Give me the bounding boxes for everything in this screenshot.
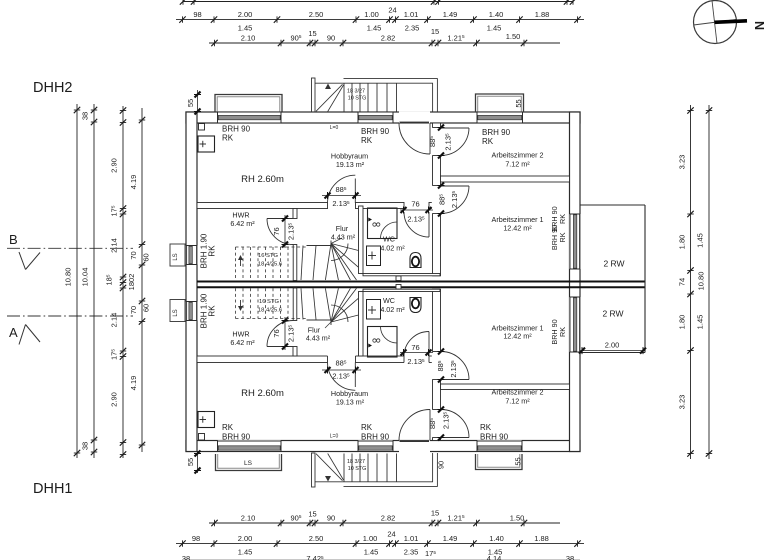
window left DHH2 BRH1.90 [186, 246, 197, 265]
svg-text:RK: RK [480, 423, 492, 432]
top dimension chain row1 [176, 6, 584, 23]
svg-text:16 STG: 16 STG [259, 299, 279, 305]
wall face lines across windows [218, 122, 282, 124]
window well bottom-1 LS [216, 454, 282, 471]
svg-text:1.50: 1.50 [506, 32, 521, 41]
room label WC DHH2 [380, 235, 405, 253]
window label BRH1.90 left DHH2 [200, 233, 217, 268]
interior wall WC west DHH1 [359, 292, 364, 357]
svg-text:18 3/27: 18 3/27 [347, 89, 365, 95]
svg-text:76: 76 [272, 329, 281, 337]
svg-text:1.40: 1.40 [489, 10, 504, 19]
dim 55 top-left [186, 90, 201, 115]
svg-text:76: 76 [272, 227, 281, 235]
interior wall WC south DHH2 [363, 274, 440, 276]
svg-text:12.42 m²: 12.42 m² [503, 332, 532, 341]
entrance door opening DHH1 [399, 440, 430, 452]
junction box WC south DHH2 [396, 276, 401, 281]
svg-text:RK: RK [208, 245, 217, 257]
svg-text:55: 55 [514, 99, 523, 107]
stair spine wall DHH1 [293, 288, 297, 321]
interior wall A1/A2 divider DHH1 [441, 384, 570, 390]
stair spine wall DHH2 [293, 245, 297, 281]
svg-text:RK: RK [558, 214, 567, 224]
svg-text:Arbeitszimmer 2: Arbeitszimmer 2 [492, 151, 544, 160]
svg-text:LS: LS [173, 309, 179, 316]
window right DHH1 BRH90 [569, 297, 580, 352]
svg-text:98: 98 [192, 534, 200, 543]
right dimension chain R1 [678, 105, 694, 459]
svg-text:24: 24 [387, 530, 395, 539]
svg-text:Arbeitszimmer 2: Arbeitszimmer 2 [492, 388, 544, 397]
door opening Hobbyraum DHH2 [328, 202, 356, 209]
svg-text:N: N [752, 21, 766, 30]
svg-text:2.14: 2.14 [110, 238, 119, 253]
door opening WC (76) DHH1 [404, 355, 429, 363]
svg-text:4.19: 4.19 [129, 376, 138, 391]
door swing Arbeitszimmer2 DHH2 + labels [428, 125, 469, 159]
svg-text:10.80: 10.80 [697, 272, 706, 291]
svg-text:4.02 m²: 4.02 m² [380, 244, 405, 253]
shaft box WC DHH1 [367, 300, 381, 320]
section line A [7, 316, 133, 345]
svg-text:1.01: 1.01 [404, 534, 419, 543]
svg-text:RK: RK [222, 134, 234, 143]
svg-text:1.88: 1.88 [535, 10, 550, 19]
svg-text:RK: RK [208, 305, 217, 317]
bottom dimension chain rowD (clipped) [182, 554, 580, 560]
window right DHH2 BRH90 [569, 214, 580, 269]
svg-text:1.50: 1.50 [510, 513, 525, 522]
window well top-3 [476, 94, 524, 112]
svg-text:38: 38 [566, 554, 574, 560]
svg-text:6.42 m²: 6.42 m² [230, 219, 255, 228]
svg-text:19.13 m²: 19.13 m² [336, 160, 365, 169]
interior wall vertical divider DHH2 [433, 123, 441, 276]
left dimension chain L1 (10.80) [64, 104, 81, 458]
svg-text:BRH 90: BRH 90 [361, 127, 390, 136]
svg-text:90: 90 [437, 461, 446, 469]
party wall line DHH1 [197, 286, 645, 288]
window well top-1 [215, 95, 282, 112]
window top-2 BRH90 [358, 111, 393, 123]
svg-text:16 STG: 16 STG [258, 253, 278, 259]
svg-text:38: 38 [81, 442, 90, 450]
interior wall Flur north DHH2 [197, 203, 433, 209]
svg-text:2.10: 2.10 [241, 33, 256, 42]
interior wall HWR east DHH1 [293, 347, 297, 357]
door opening Arbeitszimmer2 DHH2 [432, 128, 441, 156]
window bottom-2 BRH90 [358, 440, 393, 452]
dim 55 bottom-left [186, 451, 201, 474]
window label BRH90 top-1 [222, 125, 251, 143]
window label BRH90 bottom-3 [480, 423, 509, 442]
door opening Hobbyraum DHH1 [328, 355, 356, 363]
shower box WC DHH1 [368, 327, 398, 358]
svg-text:2 RW: 2 RW [602, 309, 623, 319]
svg-text:76: 76 [411, 343, 419, 352]
svg-text:12.42 m²: 12.42 m² [503, 224, 532, 233]
door swing entrance DHH2 [399, 123, 430, 154]
svg-text:A: A [9, 325, 18, 340]
svg-text:BRH 90: BRH 90 [482, 128, 511, 137]
toilet WC DHH1 [410, 298, 421, 313]
room label HWR DHH2 [230, 211, 255, 229]
window label BRH90 top-3 [482, 128, 511, 146]
right dimension chain R2 [696, 105, 713, 459]
svg-text:10.04: 10.04 [81, 268, 90, 287]
entrance exterior stairs DHH2 [312, 78, 438, 112]
room label Flur DHH1 [306, 326, 331, 343]
room label Arbeitszimmer2 DHH1 [492, 388, 544, 406]
window bottom-1 BRH90 [218, 440, 282, 452]
svg-text:1.88: 1.88 [534, 534, 549, 543]
door opening Arbeitszimmer1 DHH2 [432, 186, 441, 214]
door swing Hobbyraum DHH2 + labels [322, 175, 361, 208]
top dimension chain row2 [209, 27, 560, 46]
svg-text:38: 38 [81, 112, 90, 120]
balcony terrace 2RW [579, 205, 646, 354]
svg-text:10 STG: 10 STG [348, 466, 367, 472]
top dimension chain row0 [180, 0, 576, 5]
door swing Arbeitszimmer2 DHH1 + labels [428, 407, 469, 441]
door opening Arbeitszimmer1 DHH1 [432, 352, 441, 380]
svg-text:2.50: 2.50 [309, 534, 324, 543]
svg-text:2 RW: 2 RW [603, 259, 624, 269]
svg-text:10 STG: 10 STG [348, 96, 367, 102]
door swing HWR (76) DHH2 + labels [267, 215, 296, 248]
svg-text:2.50: 2.50 [309, 10, 324, 19]
svg-text:RK: RK [222, 423, 234, 432]
light shaft LS left DHH1 [170, 300, 185, 322]
svg-text:L=0: L=0 [330, 125, 339, 131]
svg-text:70: 70 [129, 251, 138, 259]
interior wall Flur south DHH1 [197, 356, 433, 363]
svg-text:60: 60 [142, 304, 151, 312]
svg-text:4.14: 4.14 [487, 554, 502, 560]
svg-text:2.90: 2.90 [110, 392, 119, 407]
window label BRH90 right DHH1 lower [0, 0, 1, 1]
svg-text:2.00: 2.00 [238, 534, 253, 543]
party wall line DHH2 [197, 281, 645, 283]
svg-text:2.90: 2.90 [110, 158, 119, 173]
bottom dimension chain rowC sub-values [238, 548, 503, 559]
bottom dimension chain rowB [176, 530, 584, 547]
svg-text:BRH 90: BRH 90 [222, 125, 251, 134]
outer wall top [186, 112, 580, 123]
svg-text:55: 55 [186, 458, 195, 466]
room label WC DHH1 [380, 296, 405, 314]
svg-text:1.00: 1.00 [363, 534, 378, 543]
svg-text:15: 15 [431, 27, 439, 36]
door swing Arbeitszimmer1 DHH2 + labels [438, 183, 470, 217]
svg-text:B: B [9, 232, 18, 247]
svg-text:2.10: 2.10 [241, 513, 256, 522]
svg-text:RK: RK [482, 137, 494, 146]
svg-text:1.45: 1.45 [364, 548, 379, 557]
svg-text:1.49: 1.49 [443, 10, 458, 19]
svg-text:1.45: 1.45 [238, 24, 253, 33]
svg-text:90: 90 [327, 33, 335, 42]
svg-text:1.80: 1.80 [678, 315, 687, 330]
svg-text:55: 55 [514, 457, 523, 465]
svg-text:2.14: 2.14 [110, 313, 119, 328]
svg-text:60: 60 [142, 253, 151, 261]
svg-text:19.13 m²: 19.13 m² [336, 398, 365, 407]
toilet WC DHH2 [410, 253, 421, 268]
interior wall vertical divider DHH1 [433, 289, 441, 440]
room label Arbeitszimmer1 DHH2 [492, 215, 544, 233]
svg-text:1.49: 1.49 [443, 534, 458, 543]
window label BRH1.90 left DHH1 [200, 293, 217, 328]
svg-text:24: 24 [388, 6, 396, 15]
entrance door opening DHH2 [399, 111, 430, 123]
svg-text:1.45: 1.45 [696, 233, 705, 248]
door opening WC (76) DHH2 [404, 202, 429, 209]
window label BRH90 right DHH1 [550, 319, 567, 344]
svg-text:RH 2.60m: RH 2.60m [241, 388, 284, 399]
svg-text:18 3/27: 18 3/27 [347, 459, 365, 465]
svg-text:1.45: 1.45 [367, 24, 382, 33]
door swing WC (76) DHH1 + labels [400, 332, 433, 367]
svg-text:1.01: 1.01 [404, 10, 419, 19]
window bottom-3 BRH90 [477, 440, 522, 452]
room label Flur DHH2 [331, 224, 356, 242]
svg-text:DHH2: DHH2 [33, 80, 72, 96]
outer wall right [570, 112, 581, 452]
bottom dimension chain rowA [209, 509, 560, 527]
junction box WC north DHH1 [396, 285, 401, 290]
interior wall A1/A2 divider DHH2 [441, 176, 570, 182]
svg-text:2.82: 2.82 [381, 33, 396, 42]
north compass [694, 1, 767, 44]
room label Arbeitszimmer2 DHH2 [492, 151, 544, 169]
svg-text:LS: LS [173, 253, 179, 260]
svg-text:BRH 90: BRH 90 [480, 433, 509, 442]
room label HWR DHH1 [230, 330, 255, 348]
svg-text:L=0: L=0 [330, 434, 339, 440]
svg-text:2.00: 2.00 [238, 10, 253, 19]
svg-text:2.82: 2.82 [381, 513, 396, 522]
svg-text:1.40: 1.40 [489, 534, 504, 543]
door swing WC (76) DHH2 + labels [400, 200, 433, 238]
svg-text:7.12 m²: 7.12 m² [505, 160, 530, 169]
door swing HWR (76) DHH1 + labels [267, 317, 296, 350]
svg-text:4.19: 4.19 [129, 175, 138, 190]
door swing entrance DHH1 [399, 410, 430, 441]
svg-text:18.4/25.6: 18.4/25.6 [258, 262, 282, 268]
svg-text:4.43 m²: 4.43 m² [306, 334, 331, 343]
svg-text:LS: LS [244, 460, 253, 467]
svg-text:DHH1: DHH1 [33, 481, 72, 497]
left dimension chain L4 [129, 108, 151, 452]
svg-text:90: 90 [327, 513, 335, 522]
svg-text:15: 15 [431, 509, 439, 518]
room label Hobbyraum DHH2 [331, 152, 368, 170]
svg-text:70: 70 [129, 306, 138, 314]
room label Hobbyraum DHH1 [331, 389, 368, 407]
svg-text:2.00: 2.00 [605, 341, 620, 350]
window left DHH1 BRH1.90 [186, 302, 197, 321]
svg-text:1.80: 1.80 [678, 235, 687, 250]
svg-text:76: 76 [411, 200, 419, 209]
svg-text:10.80: 10.80 [64, 268, 73, 287]
svg-text:RK: RK [558, 327, 567, 337]
svg-text:6.42 m²: 6.42 m² [230, 338, 255, 347]
window label BRH90 right DHH2 upper [550, 206, 567, 231]
door swing Hobbyraum DHH1 + labels [322, 359, 361, 391]
window label BRH90 bottom-2 [361, 423, 390, 442]
svg-text:3.23: 3.23 [678, 395, 687, 410]
svg-text:2.35: 2.35 [404, 548, 419, 557]
svg-text:1.45: 1.45 [487, 24, 502, 33]
svg-text:RK: RK [361, 423, 373, 432]
top dimension chain row1 sub-values [238, 24, 502, 33]
svg-text:74: 74 [678, 278, 687, 286]
svg-text:4.43 m²: 4.43 m² [331, 233, 356, 242]
shaft box Hobbyraum DHH2 [198, 136, 215, 152]
svg-text:15: 15 [308, 29, 316, 38]
room label Arbeitszimmer1 DHH1 [492, 324, 544, 341]
corner box DHH1 [199, 434, 205, 441]
svg-text:1.00: 1.00 [364, 10, 379, 19]
svg-text:2.35: 2.35 [405, 24, 420, 33]
svg-text:RH 2.60m: RH 2.60m [241, 174, 284, 185]
svg-text:4.02 m²: 4.02 m² [380, 305, 405, 314]
interior wall HWR east DHH2 [293, 209, 297, 219]
staircase DHH1 [236, 288, 359, 328]
window top-1 BRH90 [218, 111, 282, 123]
interior wall WC north DHH1 [363, 289, 440, 291]
svg-text:15: 15 [308, 510, 316, 519]
svg-text:38: 38 [182, 554, 190, 560]
outer wall left [186, 112, 197, 452]
shaft box WC DHH2 [367, 246, 381, 266]
window label BRH90 bottom-1 [222, 423, 251, 442]
light shaft LS left DHH2 [170, 244, 185, 266]
svg-text:1.45: 1.45 [238, 548, 253, 557]
window label BRH90 right DHH2 lower [550, 225, 567, 250]
shower box WC DHH2 [368, 208, 398, 239]
left dimension chain L2 (38/10.04/38) [81, 104, 98, 458]
svg-text:7.12 m²: 7.12 m² [505, 397, 530, 406]
door opening Arbeitszimmer2 DHH1 [432, 410, 441, 438]
svg-text:98: 98 [193, 10, 201, 19]
section line B [7, 232, 133, 270]
left dimension chain L3 [105, 106, 137, 458]
svg-text:3.23: 3.23 [678, 155, 687, 170]
window top-3 BRH90 [477, 111, 523, 123]
staircase DHH2 [236, 238, 359, 280]
svg-text:WC: WC [383, 235, 395, 244]
svg-text:7.425: 7.425 [306, 554, 324, 560]
shaft box Hobbyraum DHH1 [198, 412, 215, 428]
svg-text:BRH 90: BRH 90 [361, 433, 390, 442]
svg-text:1.45: 1.45 [696, 315, 705, 330]
svg-text:WC: WC [383, 296, 395, 305]
window well bottom-3 [476, 454, 523, 470]
svg-text:1802: 1802 [127, 274, 136, 291]
svg-text:18.4/25.6: 18.4/25.6 [258, 308, 282, 314]
svg-text:RK: RK [558, 232, 567, 242]
entrance exterior stairs DHH1 [312, 453, 438, 487]
interior wall WC west DHH2 [359, 206, 364, 274]
outer wall bottom [186, 441, 580, 452]
window label BRH90 top-2 [361, 127, 390, 145]
door swing Arbeitszimmer1 DHH1 + labels [436, 349, 469, 383]
svg-text:55: 55 [186, 99, 195, 107]
svg-text:RK: RK [361, 136, 373, 145]
svg-text:BRH 90: BRH 90 [222, 433, 251, 442]
corner box DHH2 [199, 124, 205, 131]
